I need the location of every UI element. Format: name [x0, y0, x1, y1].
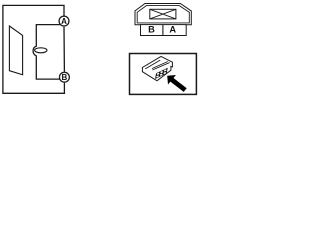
wire A-B link — [63, 27, 65, 72]
housing front edge lower — [152, 63, 169, 70]
terminal row box — [141, 25, 187, 36]
terminal cells row 1 — [157, 69, 167, 75]
svg-text:A: A — [61, 17, 67, 26]
connector housing silhouette — [142, 56, 172, 80]
photo frame box — [130, 54, 197, 95]
terminal B circle — [59, 72, 69, 82]
connector shell outer — [135, 4, 191, 25]
wire inner with coil hook — [33, 25, 60, 80]
speaker panel — [9, 26, 22, 75]
connector key box with X — [150, 9, 176, 19]
svg-text:A: A — [169, 25, 176, 35]
wire outer loop — [3, 5, 65, 93]
terminal divider — [162, 25, 164, 36]
coil loop ellipse — [35, 48, 47, 53]
housing front edge upper — [152, 62, 168, 69]
connector shell inner rim — [137, 6, 189, 23]
housing chamfer line — [145, 60, 160, 69]
pointer arrow — [167, 75, 187, 92]
terminal cells row 2 — [156, 72, 166, 78]
terminal A circle — [59, 16, 69, 26]
terminal block plate — [155, 68, 168, 79]
svg-text:B: B — [148, 25, 155, 35]
svg-text:B: B — [62, 73, 68, 82]
